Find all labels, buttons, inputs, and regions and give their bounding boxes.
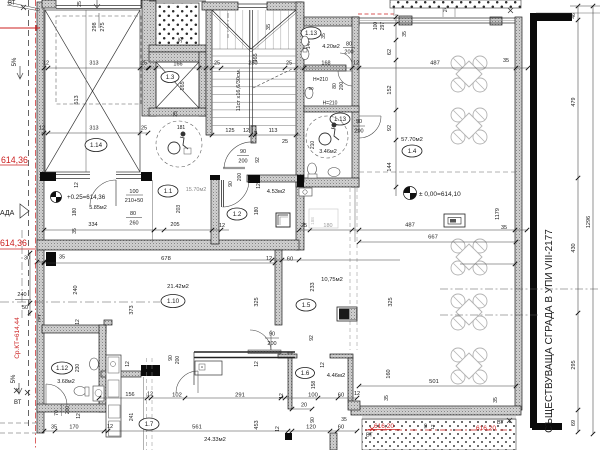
- svg-text:487: 487: [430, 61, 440, 67]
- svg-text:12: 12: [354, 391, 360, 397]
- svg-text:313: 313: [89, 61, 98, 67]
- svg-text:616,20: 616,20: [476, 425, 496, 432]
- svg-text:233: 233: [310, 282, 316, 291]
- svg-text:35: 35: [321, 33, 327, 39]
- svg-text:241: 241: [129, 413, 135, 422]
- svg-text:Ср.КТ=614,44: Ср.КТ=614,44: [14, 317, 21, 359]
- svg-text:35: 35: [266, 24, 272, 30]
- svg-text:57.70м2: 57.70м2: [401, 137, 423, 143]
- svg-text:487: 487: [405, 223, 415, 229]
- svg-text:92: 92: [387, 125, 393, 131]
- svg-text:60: 60: [338, 393, 344, 399]
- svg-text:12: 12: [243, 128, 249, 134]
- svg-text:230: 230: [75, 364, 81, 373]
- svg-text:92: 92: [309, 335, 315, 341]
- svg-text:430: 430: [571, 243, 577, 252]
- svg-text:15.70м2: 15.70м2: [186, 187, 207, 193]
- svg-text:1.13: 1.13: [305, 30, 318, 37]
- svg-text:334: 334: [88, 222, 97, 228]
- svg-text:35: 35: [503, 58, 509, 64]
- svg-text:20: 20: [301, 403, 307, 409]
- svg-text:11ст х16,6/30см.: 11ст х16,6/30см.: [236, 68, 242, 111]
- svg-text:100: 100: [373, 22, 379, 31]
- svg-text:180: 180: [254, 207, 260, 216]
- svg-text:200: 200: [354, 129, 363, 135]
- svg-text:12: 12: [430, 424, 435, 430]
- svg-text:62: 62: [387, 49, 393, 55]
- svg-text:325: 325: [254, 297, 260, 306]
- svg-text:158: 158: [311, 381, 317, 390]
- svg-text:35: 35: [384, 395, 390, 401]
- svg-text:25: 25: [301, 223, 307, 229]
- svg-text:± 0,00=614,10: ± 0,00=614,10: [419, 191, 461, 198]
- svg-text:205: 205: [170, 222, 179, 228]
- svg-text:35: 35: [341, 417, 347, 423]
- svg-text:1.7: 1.7: [145, 421, 154, 428]
- svg-text:60: 60: [287, 257, 293, 263]
- svg-text:70: 70: [54, 410, 60, 416]
- svg-text:200: 200: [175, 356, 181, 365]
- svg-text:152: 152: [387, 85, 393, 94]
- svg-text:25: 25: [282, 139, 288, 145]
- svg-text:501: 501: [429, 379, 439, 385]
- svg-text:80: 80: [332, 83, 338, 89]
- svg-text:260: 260: [129, 221, 138, 227]
- svg-text:1.13: 1.13: [334, 116, 347, 123]
- svg-text:325: 325: [388, 297, 394, 306]
- svg-text:46: 46: [571, 13, 577, 19]
- svg-text:12: 12: [256, 183, 262, 189]
- svg-text:156: 156: [125, 392, 134, 398]
- svg-text:513: 513: [74, 95, 80, 104]
- svg-text:295: 295: [571, 360, 577, 369]
- svg-text:4.53м2: 4.53м2: [267, 189, 286, 195]
- svg-text:1.1: 1.1: [164, 188, 173, 195]
- svg-text:12: 12: [43, 61, 49, 67]
- svg-text:144: 144: [387, 162, 393, 171]
- svg-text:+0.25=614,36: +0.25=614,36: [67, 194, 106, 201]
- svg-text:291: 291: [235, 393, 245, 399]
- svg-text:616,20: 616,20: [374, 423, 394, 430]
- svg-text:90: 90: [240, 149, 246, 155]
- svg-text:313: 313: [89, 126, 98, 132]
- svg-text:12: 12: [76, 413, 82, 419]
- svg-text:297: 297: [380, 22, 386, 31]
- svg-text:4.46м2: 4.46м2: [327, 373, 346, 379]
- svg-text:50: 50: [22, 305, 28, 311]
- svg-text:166: 166: [173, 62, 182, 68]
- svg-text:678: 678: [161, 256, 171, 262]
- svg-text:90: 90: [269, 332, 275, 338]
- svg-text:35: 35: [51, 425, 57, 431]
- svg-text:21.42м2: 21.42м2: [167, 284, 189, 290]
- svg-text:1.14: 1.14: [90, 142, 103, 149]
- svg-text:90: 90: [310, 417, 316, 423]
- svg-text:1296: 1296: [586, 216, 592, 228]
- svg-text:373: 373: [129, 305, 135, 314]
- svg-text:3.68м2: 3.68м2: [57, 379, 75, 385]
- svg-text:СЪЩЕСТВУВАЩА СГРАДА В УПИ VIII: СЪЩЕСТВУВАЩА СГРАДА В УПИ VIII-2177: [544, 229, 555, 433]
- svg-text:479: 479: [571, 97, 577, 106]
- svg-text:561: 561: [192, 425, 202, 431]
- svg-text:90: 90: [423, 423, 428, 429]
- svg-text:35: 35: [59, 255, 65, 261]
- svg-text:200: 200: [237, 173, 243, 182]
- svg-text:25: 25: [141, 126, 147, 132]
- svg-text:25: 25: [77, 1, 83, 7]
- svg-text:4.20м2: 4.20м2: [322, 44, 340, 50]
- svg-text:12: 12: [39, 126, 45, 132]
- svg-text:5%: 5%: [12, 57, 18, 66]
- svg-text:ВТ: ВТ: [497, 420, 504, 426]
- svg-text:10,75м2: 10,75м2: [321, 277, 343, 283]
- svg-text:H=210: H=210: [313, 77, 328, 83]
- svg-text:3.46м2: 3.46м2: [319, 149, 337, 155]
- svg-text:5%: 5%: [11, 374, 17, 383]
- svg-text:667: 667: [428, 235, 438, 241]
- svg-text:80: 80: [130, 211, 136, 217]
- svg-text:102: 102: [172, 393, 182, 399]
- svg-text:80: 80: [346, 42, 352, 48]
- svg-text:ВТ: ВТ: [14, 400, 22, 406]
- svg-text:453: 453: [254, 420, 260, 429]
- svg-text:25: 25: [141, 61, 147, 67]
- svg-text:180: 180: [72, 208, 78, 217]
- svg-text:275: 275: [100, 22, 106, 31]
- svg-text:100: 100: [308, 393, 318, 399]
- svg-text:69: 69: [571, 420, 577, 426]
- svg-text:100: 100: [129, 189, 138, 195]
- svg-text:12: 12: [125, 361, 131, 367]
- svg-text:614,36: 614,36: [0, 238, 27, 248]
- svg-text:1.4: 1.4: [408, 148, 417, 155]
- svg-text:120: 120: [306, 425, 316, 431]
- svg-text:12: 12: [74, 182, 80, 188]
- svg-text:12: 12: [254, 361, 260, 367]
- svg-text:90: 90: [356, 119, 362, 125]
- svg-text:168: 168: [321, 61, 330, 67]
- svg-text:25: 25: [214, 61, 220, 67]
- svg-text:12: 12: [75, 319, 81, 325]
- svg-text:H=210: H=210: [323, 101, 338, 107]
- svg-text:210+50: 210+50: [125, 198, 144, 204]
- svg-text:АДА: АДА: [0, 210, 15, 217]
- svg-text:160: 160: [386, 369, 392, 378]
- svg-text:35: 35: [178, 37, 184, 43]
- svg-text:35: 35: [72, 228, 78, 234]
- svg-text:1.3: 1.3: [166, 74, 175, 81]
- svg-text:90: 90: [308, 86, 314, 91]
- svg-text:90: 90: [228, 181, 234, 187]
- svg-text:200: 200: [238, 159, 247, 165]
- svg-text:12: 12: [279, 393, 285, 399]
- svg-text:1.10: 1.10: [167, 298, 180, 305]
- svg-text:25: 25: [173, 111, 179, 117]
- svg-text:113: 113: [269, 128, 278, 134]
- svg-text:35: 35: [493, 397, 499, 403]
- svg-text:181: 181: [177, 125, 186, 131]
- svg-text:12: 12: [147, 392, 153, 398]
- svg-text:30: 30: [24, 256, 30, 262]
- svg-text:200: 200: [65, 406, 71, 415]
- svg-text:170: 170: [69, 425, 78, 431]
- svg-text:1.6: 1.6: [301, 370, 310, 377]
- svg-text:43: 43: [253, 130, 258, 136]
- svg-text:240: 240: [73, 285, 79, 294]
- svg-text:203: 203: [176, 205, 182, 214]
- svg-text:210: 210: [310, 141, 316, 150]
- svg-text:125: 125: [225, 128, 234, 134]
- svg-text:12: 12: [320, 362, 326, 368]
- svg-text:24.33м2: 24.33м2: [204, 437, 226, 443]
- svg-text:12: 12: [219, 223, 225, 229]
- svg-text:250: 250: [248, 61, 257, 67]
- svg-text:ГРТ: ГРТ: [37, 314, 42, 322]
- svg-text:188: 188: [310, 217, 315, 225]
- svg-text:90: 90: [168, 355, 174, 361]
- svg-text:60: 60: [338, 425, 344, 431]
- svg-text:12: 12: [107, 424, 113, 430]
- svg-text:ВТ: ВТ: [366, 433, 373, 439]
- svg-text:614,36: 614,36: [1, 155, 28, 165]
- svg-text:5.85м2: 5.85м2: [89, 205, 107, 211]
- svg-text:92: 92: [255, 157, 261, 163]
- svg-text:12: 12: [275, 426, 281, 432]
- svg-text:35: 35: [402, 31, 408, 37]
- svg-text:165: 165: [180, 81, 186, 90]
- svg-text:1.2: 1.2: [233, 211, 242, 218]
- svg-text:298: 298: [92, 22, 98, 31]
- svg-text:1.12: 1.12: [56, 365, 69, 372]
- svg-text:1179: 1179: [495, 208, 501, 220]
- svg-text:1.5: 1.5: [302, 302, 311, 309]
